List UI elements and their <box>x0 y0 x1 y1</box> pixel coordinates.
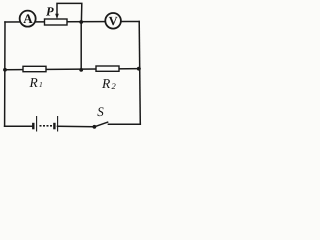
svg-text:R: R <box>29 75 39 90</box>
svg-text:1: 1 <box>39 80 43 89</box>
svg-text:S: S <box>97 104 104 119</box>
svg-text:R: R <box>101 76 111 91</box>
svg-text:P: P <box>46 4 54 18</box>
svg-text:V: V <box>109 14 118 28</box>
svg-text:A: A <box>23 11 33 26</box>
